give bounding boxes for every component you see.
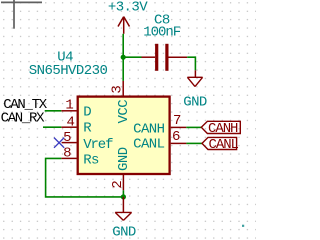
wire CAN_TX to pin 1 [45, 110, 62, 112]
svg-text:Rs: Rs [83, 153, 99, 169]
ground GND bottom [112, 197, 136, 240]
capacitor C8 [142, 12, 188, 70]
ground GND right [183, 70, 207, 110]
wire pin2 to junction [122, 190, 124, 197]
wire pin 7 to CANH label [186, 126, 201, 128]
svg-text:GND: GND [183, 94, 207, 110]
pin 4 R [61, 115, 92, 137]
wire C8 to GND right [187, 56, 195, 70]
stray mark bottom right [242, 225, 244, 227]
pin 7 CANH [133, 113, 186, 137]
global label CANH [201, 121, 240, 137]
svg-text:3: 3 [110, 86, 126, 94]
svg-text:VCC: VCC [116, 100, 132, 124]
wire pin 6 to CANL label [186, 142, 202, 144]
svg-text:100nF: 100nF [143, 24, 181, 40]
wire +3.3V down to VCC pin [122, 34, 124, 81]
global label CANL [202, 137, 239, 153]
svg-text:2: 2 [110, 181, 126, 189]
pin 3 VCC (top) [110, 81, 132, 124]
junction bottom [121, 194, 126, 199]
svg-text:7: 7 [173, 113, 181, 129]
wire junction to C8 [123, 56, 141, 58]
svg-text:SN65HVD230: SN65HVD230 [29, 63, 108, 79]
svg-text:Vref: Vref [83, 137, 113, 153]
svg-text:CANL: CANL [133, 137, 165, 153]
svg-text:4: 4 [67, 115, 75, 131]
svg-text:D: D [83, 105, 91, 121]
power flag +3.3V [108, 0, 148, 34]
no-connect X on pin 5 [54, 138, 64, 148]
svg-text:GND: GND [112, 225, 136, 240]
junction top [121, 55, 126, 60]
svg-text:CANL: CANL [209, 137, 239, 153]
pin 2 GND (bottom) [110, 147, 132, 190]
pin 1 D [61, 97, 91, 120]
svg-text:+3.3V: +3.3V [108, 0, 148, 15]
svg-text:CAN_RX: CAN_RX [1, 111, 46, 127]
svg-text:6: 6 [172, 129, 180, 145]
sheet border fragment top-left [1, 0, 42, 29]
svg-text:8: 8 [63, 145, 71, 161]
svg-text:CANH: CANH [208, 121, 238, 137]
wire CAN_RX to pin 4 [43, 126, 61, 128]
svg-text:1: 1 [65, 97, 73, 113]
wire Rs to ground net [46, 158, 124, 197]
IC U4 SN65HVD230 [29, 49, 170, 174]
pin 6 CANL [133, 129, 186, 153]
svg-text:R: R [83, 121, 92, 137]
svg-text:GND: GND [116, 147, 132, 171]
pin 5 Vref [62, 130, 114, 153]
pin 8 Rs [61, 145, 99, 168]
label CAN_TX [3, 97, 61, 113]
label CAN_RX [1, 111, 62, 128]
svg-text:CANH: CANH [133, 121, 165, 137]
